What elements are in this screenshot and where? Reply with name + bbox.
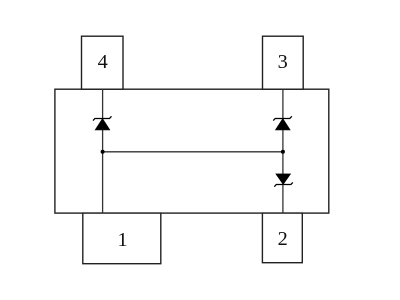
junction node B (right) bbox=[281, 150, 285, 154]
wire left vertical (pin 4 to pin 1) bbox=[102, 89, 104, 213]
wire right vertical (pin 3 to pin 2) bbox=[282, 89, 284, 213]
svg-text:4: 4 bbox=[98, 51, 108, 73]
zener diode D1 (left, cathode up) bbox=[93, 116, 112, 130]
pin 3 terminal box bbox=[263, 36, 304, 89]
svg-text:1: 1 bbox=[118, 229, 128, 251]
pin 1 terminal box bbox=[83, 213, 161, 264]
zener diode D2 (right upper, cathode up) bbox=[273, 116, 292, 130]
svg-text:2: 2 bbox=[278, 228, 288, 250]
pin 4 terminal box bbox=[82, 36, 124, 89]
svg-text:3: 3 bbox=[278, 51, 288, 73]
pin 2 terminal box bbox=[262, 213, 302, 263]
junction node A (left) bbox=[101, 150, 105, 154]
zener diode D3 (right lower, cathode down) bbox=[274, 174, 293, 187]
package body outline bbox=[55, 89, 329, 213]
wire horizontal (node A to node B) bbox=[103, 151, 283, 153]
